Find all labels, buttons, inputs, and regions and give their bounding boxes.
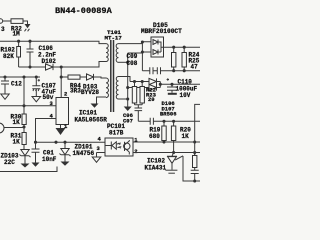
resistor R25 [182,47,200,70]
svg-text:1N4756: 1N4756 [73,150,95,157]
ground center tap [124,107,132,112]
svg-text:680: 680 [149,133,160,140]
ground [32,97,41,102]
svg-text:3R3: 3R3 [70,88,81,95]
node [35,75,38,78]
diode D106 [149,82,177,118]
resistor R22 [132,82,136,105]
resistor R31 1K [11,127,27,150]
svg-text:1K: 1K [13,139,21,146]
svg-text:BR506: BR506 [160,111,177,118]
svg-text:KIA431: KIA431 [145,164,167,171]
svg-text:D102: D102 [42,58,57,65]
node [172,120,175,123]
T101 primary winding [106,44,108,62]
node [172,151,175,154]
capacitor C08 [142,67,157,74]
wire AC bus [0,41,106,43]
wire right rail [195,104,200,155]
svg-text:2: 2 [64,91,67,98]
resistor R24 [172,47,176,70]
svg-text:47: 47 [191,64,199,71]
wire bottom bus [36,141,106,143]
T101 secondary winding 2 [116,77,118,100]
resistor R23 [135,82,157,109]
resistor on rail [193,153,197,171]
svg-text:BYV28: BYV28 [81,89,99,96]
svg-text:3: 3 [1,26,5,33]
resistor R32 1M [11,19,28,38]
ground ZD103 [21,164,30,168]
node [159,83,162,86]
shunt IC102 KIA431 [145,153,184,174]
node [34,141,37,144]
resistor R04 3R3 [61,75,86,95]
capacitor C12 [1,77,22,94]
chassis ground [25,24,31,31]
node [3,75,6,78]
zener ZD103 22C [1,150,31,167]
ground IC101 [56,128,66,135]
node [126,61,129,64]
wire to diodes [128,82,149,88]
node [126,86,129,89]
node R22 top [133,80,136,83]
wire drain [60,67,62,98]
capacitor C01 10nF [32,142,57,163]
node [28,65,31,68]
svg-text:C12: C12 [11,81,22,88]
diode D102 [42,58,57,70]
node [193,151,196,154]
svg-text:KA5L0565R: KA5L0565R [75,117,108,124]
wire bottom right [183,156,200,181]
IC101 KA5L0565R [56,98,107,125]
svg-text:MBRF20100CT: MBRF20100CT [141,28,182,35]
capacitor C106 2.2nF [27,41,57,67]
wire primary return [61,62,106,68]
capacitor C110 1000uF 10V [167,78,198,99]
rectifier D105 MBRF20100CT [141,22,182,57]
wire w4 top lead [119,77,131,82]
node [141,40,144,43]
node drain [60,65,63,68]
svg-text:1M: 1M [13,31,21,38]
svg-text:10V: 10V [180,92,191,99]
pin 1 [61,123,69,130]
T101 secondary winding 1 [116,44,118,63]
T101 core [111,40,114,112]
ground [1,94,9,99]
ground ZD101 [61,162,70,166]
node [162,140,165,143]
svg-text:BN44-00089A: BN44-00089A [55,6,113,16]
capacitor C06 C07 [123,108,142,125]
wire 10V output [160,83,200,85]
T101 aux winding [106,78,108,98]
node [193,179,196,182]
wire pin1 [133,141,200,143]
capacitor C09 [127,53,201,74]
wire center tap [127,53,129,107]
wire secondary w1 bottom [119,61,128,63]
resistor R20 1K [171,121,191,152]
connector bubble top left [0,19,11,33]
wire IC pin3 rail [0,105,56,107]
svg-text:IC101: IC101 [79,110,97,117]
wire 5V output [164,46,201,48]
pin 3 [97,145,106,157]
svg-text:82K: 82K [3,53,14,60]
svg-text:20: 20 [148,96,155,103]
wire snubber [19,66,62,68]
zener ZD101 1N4756 [60,142,95,161]
wire bottom left [0,167,57,172]
node C106 top [28,40,31,43]
node [183,46,186,49]
resistor R30 1K [11,106,27,127]
svg-text:C110: C110 [178,78,193,85]
svg-text:817B: 817B [109,130,124,137]
svg-text:1K: 1K [182,133,190,140]
wire secondary top [119,43,143,45]
diode D107 [149,78,160,84]
capacitor on rail [191,170,199,181]
svg-text:10nF: 10nF [42,156,57,163]
resistor R102 82K [1,41,21,67]
wire feedback [138,120,200,122]
svg-text:1K: 1K [13,119,21,126]
node [141,50,144,53]
wire vcc rail [0,76,40,78]
wire IC pin4 [36,119,57,143]
node R102 top [17,40,20,43]
wire w4 bottom lead [119,98,128,100]
wire aux bottom [97,97,107,104]
node [63,141,66,144]
diode D103 BYV28 [81,74,106,96]
node [172,46,175,49]
node [22,125,25,128]
node [172,69,175,72]
connector circle [0,123,24,133]
node [22,104,25,107]
svg-text:2: 2 [134,148,137,155]
ground pin3 [92,157,101,162]
node [22,75,25,78]
node [54,141,57,144]
node [183,69,186,72]
wire pin2 [133,152,200,154]
node [170,83,173,86]
node [126,97,129,100]
node [193,140,196,143]
transformer label T101 MT-17 [105,29,123,42]
node R23 top [141,80,144,83]
ground aux [91,104,99,108]
capacitor feedback [150,118,153,125]
svg-text:C08: C08 [127,60,138,67]
title BN44-00089A [55,6,113,16]
node [162,120,165,123]
node [60,75,63,78]
wire D105 input rail [128,42,151,71]
wire vcc to R30 [23,77,25,106]
resistor R19 680 [149,121,166,142]
capacitor C107 47uF 50v [32,77,56,101]
optocoupler PC101 817B [105,123,133,156]
ground C01 [32,163,40,167]
svg-text:22C: 22C [4,159,15,166]
